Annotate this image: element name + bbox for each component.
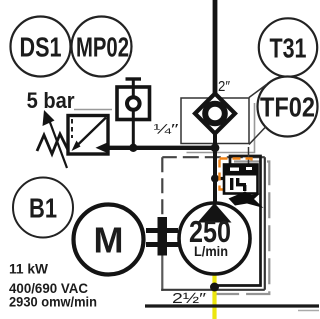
callout box drop shadow: [187, 103, 255, 153]
wire: callout box corner down to component: [248, 147, 250, 165]
junction at pump suction node: [210, 283, 219, 292]
svg-text:DS1: DS1: [20, 32, 62, 63]
relief valve spring: [37, 134, 68, 154]
junction at component branch: [211, 175, 219, 183]
svg-text:¼″: ¼″: [154, 121, 179, 137]
svg-text:B1: B1: [29, 193, 57, 224]
junction at gauge / pilot pipe: [129, 144, 137, 152]
svg-text:TF02: TF02: [260, 92, 315, 123]
svg-text:L/min: L/min: [194, 244, 228, 259]
enclosure box around pump group, top side: [162, 156, 264, 158]
svg-text:M: M: [94, 220, 124, 261]
enclosure box, bottom side: [161, 289, 265, 291]
check valve CV1 (ball in diamond seat): [195, 94, 235, 134]
relief valve V1 body: [68, 116, 108, 155]
pump P1 (250 L/min): [179, 203, 250, 274]
coupling / bell housing between motor and pump: [146, 217, 178, 256]
balloon B1: [13, 178, 73, 238]
leader line from callout box to balloon TF02 (lower): [249, 127, 266, 145]
enclosure box, right side: [264, 157, 266, 290]
balloon DS1: [11, 17, 71, 77]
relief valve adjustment arrow: [48, 117, 67, 168]
enclosure box, left side lower: [161, 232, 163, 291]
wire: yellow suction pipe below pump: [212, 274, 216, 319]
electric motor M1: [74, 205, 144, 275]
svg-text:T31: T31: [270, 33, 307, 64]
wire: quarter inch pilot pipe to relief valve: [104, 146, 215, 150]
balloon T31: [259, 18, 317, 76]
callout box around check valve: [181, 98, 249, 144]
component FS1 (flow indicator icon): [224, 165, 258, 194]
tank line shadow stub: [298, 310, 319, 312]
balloon TF02: [258, 77, 318, 137]
relief valve internal flow arrow: [75, 118, 106, 148]
wire: branch from vertical pipe to component: [215, 177, 225, 180]
enclosure drop shadow (gray): [206, 162, 269, 295]
svg-text:11 kW: 11 kW: [9, 261, 49, 277]
svg-text:2½″: 2½″: [172, 290, 207, 307]
flow arrowhead entering relief valve: [96, 142, 110, 154]
relief valve pilot dashes: [71, 119, 73, 138]
svg-text:MP02: MP02: [76, 32, 129, 63]
svg-text:2″: 2″: [218, 78, 231, 95]
svg-text:5 bar: 5 bar: [27, 88, 75, 113]
wire: return loop from component outlet around to pump suction node: [217, 156, 261, 286]
wire: vertical pipe from check valve down to pump inlet: [213, 131, 217, 204]
enclosure box, left side upper (dashed): [161, 157, 163, 232]
tank line (bottom): [145, 304, 319, 307]
svg-text:2930 omw/min: 2930 omw/min: [9, 294, 97, 310]
leader line from callout box to balloon TF02 (upper): [249, 85, 267, 98]
orange selection marks around component: [220, 159, 252, 190]
leader line under 5 bar label: [74, 109, 112, 111]
balloon MP02: [72, 17, 132, 77]
wire: 2 inch supply pipe from top edge to check valve: [213, 0, 218, 96]
measuring point MP02 (gauge connection): [117, 79, 150, 148]
junction below check valve: [211, 143, 220, 152]
component flag / pointer: [229, 192, 264, 209]
